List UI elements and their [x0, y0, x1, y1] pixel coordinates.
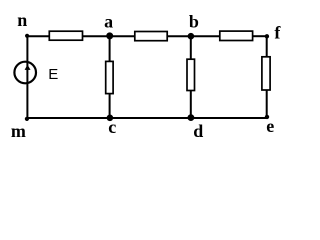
wire bottom rail c to d: [109, 117, 192, 119]
node f junction dot: [265, 34, 269, 38]
wire bottom rail m to c: [26, 117, 110, 119]
wire bottom rail d to e: [190, 117, 268, 119]
resistor R2 (top rail, between a and b): [135, 32, 167, 41]
resistor R5 (vertical, between b and d): [187, 59, 195, 90]
EMF source E arrowhead: [25, 65, 31, 70]
wire R3 to node f (top rail): [252, 35, 268, 37]
node a junction dot: [106, 32, 113, 39]
resistor R3 (top rail, between b and f): [220, 31, 253, 40]
svg-text:n: n: [17, 10, 27, 30]
node d junction dot: [188, 114, 195, 121]
wire left branch n to m through source E: [26, 35, 28, 119]
svg-text:m: m: [11, 121, 26, 141]
svg-text:c: c: [108, 117, 116, 137]
EMF source E circle: [14, 62, 36, 84]
node e junction dot: [265, 115, 269, 119]
resistor R1 (top rail, between n and a): [49, 31, 82, 40]
wire branch b to d: [190, 37, 192, 119]
wire R2 to node b (top rail): [167, 35, 192, 37]
node c junction dot: [107, 115, 114, 122]
resistor R6 (vertical, between f and e): [262, 57, 270, 90]
wire node a to R2 (top rail): [109, 35, 135, 37]
node b junction dot: [188, 33, 195, 40]
wire branch f to e: [266, 36, 268, 118]
svg-text:E: E: [48, 66, 58, 83]
svg-text:f: f: [274, 23, 281, 43]
resistor R4 (vertical, between a and c): [106, 61, 113, 93]
wire n to R1 (top rail): [26, 35, 50, 37]
svg-text:a: a: [104, 12, 113, 32]
node m junction dot: [25, 117, 29, 121]
svg-text:d: d: [193, 121, 203, 141]
svg-text:e: e: [266, 116, 274, 136]
node n junction dot: [25, 34, 29, 38]
wire branch a to c: [109, 36, 111, 118]
wire R1 to node a (top rail): [82, 35, 110, 37]
svg-text:b: b: [189, 11, 199, 31]
wire node b to R3 (top rail): [190, 35, 220, 37]
